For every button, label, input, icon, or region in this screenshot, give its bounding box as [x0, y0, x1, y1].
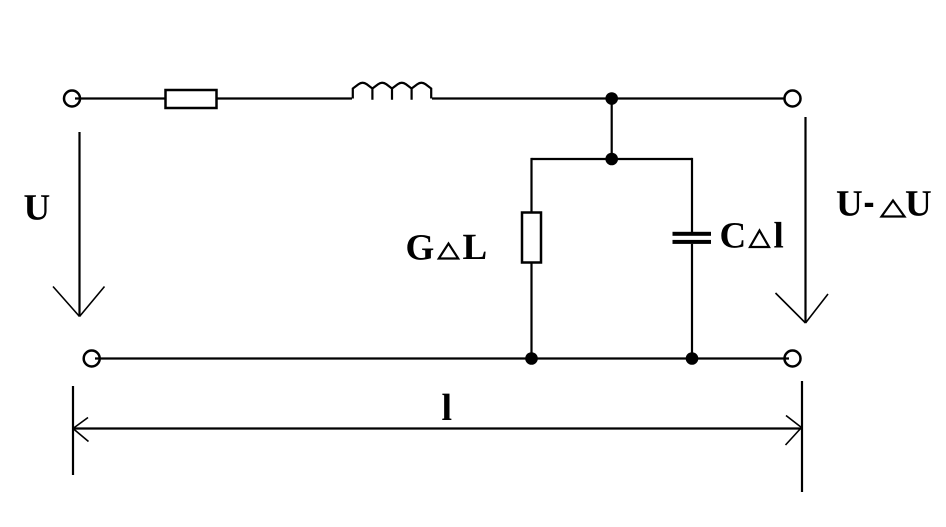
node junction bottom-left (dot) [525, 352, 538, 365]
wire right shunt upper [691, 158, 693, 232]
terminal T4 (bottom-right) [785, 351, 801, 367]
svg-text:L: L [463, 227, 488, 268]
node junction mid (dot) [605, 153, 618, 166]
dimension tick left [72, 386, 74, 475]
wire left shunt upper [530, 158, 532, 213]
wire bottom rail [95, 357, 789, 359]
capacitor C plate top [673, 232, 712, 236]
wire vertical: top node to mid node [611, 99, 613, 160]
svg-text:U: U [24, 188, 51, 229]
svg-text:C: C [720, 216, 747, 257]
arrow U-dU (right voltage arrow shaft) [804, 117, 806, 323]
svg-text:U: U [836, 184, 863, 225]
resistor G (shunt box) [522, 213, 541, 263]
wire right shunt lower [691, 244, 693, 359]
arrow U head [53, 287, 105, 317]
wire top rail: R to L [217, 97, 353, 99]
wire left shunt lower [530, 263, 532, 359]
dimension tick right [801, 381, 803, 492]
label triangle delta (C) [750, 231, 769, 248]
capacitor C plate bottom [673, 240, 712, 244]
dimension arrowhead right [786, 416, 802, 446]
wire top rail: T1 to R [75, 97, 165, 99]
label triangle delta (right) [882, 201, 905, 217]
svg-text:G: G [406, 228, 435, 269]
wire top rail: L to T2 [432, 97, 785, 99]
node junction bottom-right (dot) [686, 352, 699, 365]
svg-text:l: l [774, 216, 784, 257]
terminal T1 (top-left) [64, 91, 80, 107]
terminal T2 (top-right) [785, 91, 801, 107]
node junction top (dot) [605, 92, 618, 105]
resistor R (series box) [166, 90, 217, 108]
svg-text:l: l [442, 387, 453, 429]
wire mid horizontal [532, 158, 693, 160]
label hyphen [865, 203, 873, 207]
arrow U-dU head [776, 293, 829, 323]
terminal T3 (bottom-left) [84, 351, 100, 367]
arrow U (left voltage arrow shaft) [78, 132, 80, 317]
inductor L (series coil, 4 humps) [353, 83, 431, 100]
label triangle delta (G) [439, 244, 458, 259]
svg-text:U: U [905, 184, 932, 225]
dimension arrowhead left [73, 418, 89, 442]
dimension line l [73, 427, 802, 429]
